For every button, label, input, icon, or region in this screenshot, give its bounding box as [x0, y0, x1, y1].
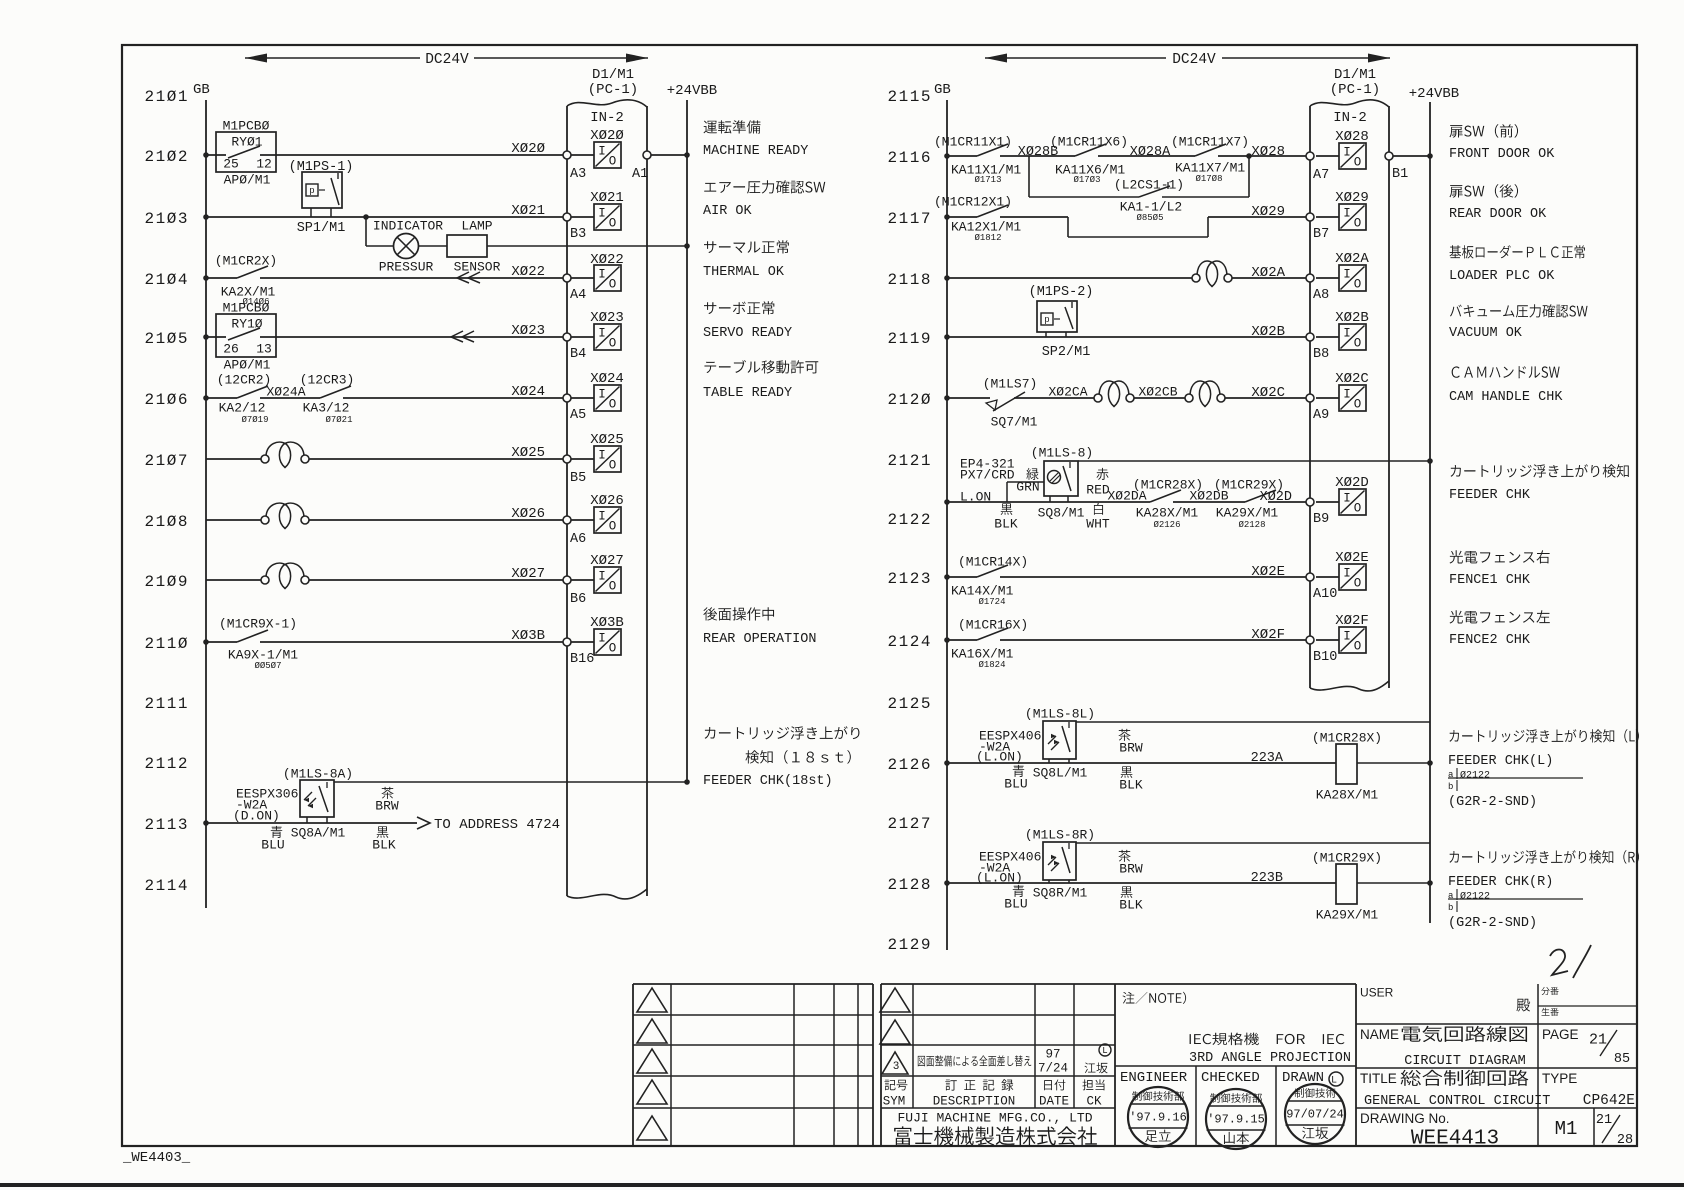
svg-text:I: I: [1343, 146, 1351, 160]
svg-text:XØ26: XØ26: [590, 493, 624, 509]
svg-text:Ø2128: Ø2128: [1238, 520, 1265, 530]
GRN wire: [1006, 482, 1008, 502]
wire 2102 to module: [260, 154, 567, 156]
junction dot rail X02D: [944, 499, 950, 505]
sheet cell M1: [1593, 1108, 1595, 1146]
svg-text:Ø1713: Ø1713: [974, 175, 1001, 185]
svg-text:B10: B10: [1313, 650, 1337, 665]
svg-text:I: I: [1343, 327, 1351, 341]
wire rung XØ27: [206, 579, 261, 581]
svg-text:A9: A9: [1313, 408, 1329, 423]
svg-text:2124: 2124: [888, 633, 931, 651]
svg-text:2128: 2128: [888, 876, 931, 894]
M1LS-8A stubs: [306, 817, 308, 823]
junction dot rail 2116: [944, 153, 950, 159]
svg-text:TYPE: TYPE: [1542, 1071, 1577, 1086]
PLC I/O module IN-2 (right half): [1309, 106, 1311, 688]
junction dot +24VBB M1CR28X: [1427, 760, 1433, 766]
svg-text:SERVO READY: SERVO READY: [703, 326, 792, 341]
junction dot +24VBB 2116: [1427, 153, 1433, 159]
revision triangles left: [637, 988, 667, 1012]
note box: [1115, 983, 1356, 985]
svg-text:13: 13: [256, 342, 272, 357]
I/O input XØ26: [571, 519, 594, 521]
wire 2105 rail to relay box: [206, 336, 226, 338]
terminal circle B3: [563, 213, 571, 221]
svg-text:223A: 223A: [1251, 751, 1284, 766]
svg-text:(M1CR11X6): (M1CR11X6): [1050, 135, 1128, 150]
svg-text:FEEDER CHK(18st): FEEDER CHK(18st): [703, 774, 833, 789]
I/O input X023: [571, 336, 594, 338]
svg-text:BRW: BRW: [375, 799, 399, 814]
svg-text:XØ22: XØ22: [590, 252, 624, 268]
svg-text:DC24V: DC24V: [1172, 52, 1216, 68]
svg-text:(M1LS-8R): (M1LS-8R): [1025, 828, 1095, 843]
svg-text:_WE4403_: _WE4403_: [122, 1150, 191, 1166]
chevron arrow 2104: [457, 272, 469, 283]
label 分番: [1541, 987, 1558, 995]
stamp engineer 足立: [1128, 1087, 1188, 1147]
svg-text:PRESSUR: PRESSUR: [379, 260, 434, 275]
svg-text:Ø17Ø3: Ø17Ø3: [1073, 175, 1100, 185]
I/O input X03B: [571, 641, 594, 643]
svg-text:2118: 2118: [888, 271, 931, 289]
terminal circle B4: [563, 333, 571, 341]
I/O input X02C: [1316, 397, 1339, 399]
svg-text:2117: 2117: [888, 210, 931, 228]
maker 富士機械製造株式会社: [894, 1126, 1097, 1145]
label GRN green: [1026, 468, 1038, 480]
svg-text:Ø7Ø21: Ø7Ø21: [325, 415, 352, 425]
svg-text:I: I: [598, 327, 606, 341]
svg-text:O: O: [1354, 217, 1362, 231]
svg-text:2113: 2113: [145, 816, 188, 834]
terminal circle B8: [1306, 333, 1314, 341]
terminal circle A4: [563, 274, 571, 282]
svg-text:O: O: [609, 155, 617, 169]
svg-text:XØ2C: XØ2C: [1335, 371, 1369, 387]
svg-text:2116: 2116: [888, 149, 931, 167]
annotation 扉SW(前): [1449, 124, 1518, 138]
svg-text:KA28X/M1: KA28X/M1: [1136, 506, 1199, 521]
label BRW brown: [1119, 850, 1131, 862]
terminal circle A1: [643, 151, 651, 159]
svg-text:SQ8A/M1: SQ8A/M1: [291, 826, 346, 841]
svg-text:LOADER PLC OK: LOADER PLC OK: [1449, 269, 1555, 284]
svg-text:APØ/M1: APØ/M1: [224, 358, 271, 373]
label WHT white: [1094, 503, 1103, 515]
svg-text:KA29X/M1: KA29X/M1: [1216, 506, 1279, 521]
wire 2119: [947, 336, 1310, 338]
+24VBB rail (left half): [686, 100, 688, 782]
junction dot +24VBB M1CR29X: [1427, 880, 1433, 886]
junction dot +24VBB sensor: [684, 779, 690, 785]
svg-text:FUJI MACHINE MFG.CO., LTD: FUJI MACHINE MFG.CO., LTD: [897, 1111, 1092, 1126]
terminal circle B10: [1306, 636, 1314, 644]
svg-text:BLU: BLU: [1004, 777, 1027, 792]
terminal circle B9: [1306, 498, 1314, 506]
connector pair symbol XØ25: [266, 442, 286, 455]
svg-text:XØ23: XØ23: [590, 310, 624, 326]
svg-text:XØ2E: XØ2E: [1335, 550, 1369, 566]
label BLK black: [1001, 503, 1013, 514]
wire 2117 jog: [1000, 216, 1068, 218]
svg-text:BRW: BRW: [1119, 862, 1143, 877]
svg-text:TITLE: TITLE: [1360, 1071, 1397, 1086]
svg-text:SENSOR: SENSOR: [454, 260, 501, 275]
svg-text:XØ2C: XØ2C: [1251, 385, 1285, 401]
contact KA1-1/L2 blade: [1139, 186, 1170, 197]
indicator lamp symbol: [394, 234, 419, 259]
svg-text:REAR DOOR OK: REAR DOOR OK: [1449, 207, 1547, 222]
svg-text:Ø1724: Ø1724: [978, 597, 1005, 607]
svg-text:DC24V: DC24V: [425, 52, 469, 68]
I/O input X020: [571, 154, 594, 156]
annotation 運転準備: [704, 120, 761, 133]
svg-text:Ø1812: Ø1812: [974, 233, 1001, 243]
left bus rail GB (left half): [205, 100, 207, 908]
svg-text:I: I: [598, 570, 606, 584]
svg-text:O: O: [609, 459, 617, 473]
svg-text:B7: B7: [1313, 227, 1329, 242]
svg-text:A7: A7: [1313, 168, 1329, 183]
svg-text:SQ8R/M1: SQ8R/M1: [1033, 886, 1088, 901]
junction dot bypass right: [1246, 153, 1252, 159]
terminal circle B5: [563, 455, 571, 463]
junction dot rail 2120: [944, 395, 950, 401]
svg-text:2122: 2122: [888, 511, 931, 529]
svg-text:21Ø9: 21Ø9: [145, 573, 188, 591]
I/O input X02E: [1316, 576, 1339, 578]
annotation サーボ正常: [704, 301, 774, 314]
junction dot rail 2123: [944, 574, 950, 580]
svg-text:XØ21: XØ21: [511, 203, 545, 219]
annotation 検知(18st): [745, 750, 850, 764]
label BLU blue: [1013, 885, 1024, 897]
svg-text:DESCRIPTION: DESCRIPTION: [933, 1095, 1016, 1109]
svg-text:XØ2D: XØ2D: [1335, 475, 1369, 491]
svg-text:I: I: [598, 145, 606, 159]
svg-text:BLU: BLU: [1004, 897, 1027, 912]
svg-text:NAME: NAME: [1360, 1027, 1399, 1042]
svg-text:ØØ5Ø7: ØØ5Ø7: [254, 661, 281, 671]
revision triangle 3: [882, 1052, 908, 1074]
label BLK black: [377, 826, 389, 837]
svg-text:85: 85: [1614, 1052, 1630, 1067]
annotation 光電フェンス左: [1450, 610, 1550, 623]
svg-text:PAGE: PAGE: [1542, 1027, 1579, 1042]
svg-text:B4: B4: [570, 347, 586, 362]
svg-text:12: 12: [256, 157, 272, 172]
svg-text:O: O: [1354, 502, 1362, 516]
I/O input XØ27: [571, 579, 594, 581]
svg-text:DRAWING No.: DRAWING No.: [1360, 1111, 1450, 1126]
connector pair symbol X02CB-2: [1190, 381, 1206, 394]
revision table middle: [880, 984, 882, 1146]
I/O input X022: [571, 277, 594, 279]
svg-text:(M1CR14X): (M1CR14X): [958, 555, 1028, 570]
annotation 扉SW(後): [1449, 184, 1518, 198]
svg-text:BRW: BRW: [1119, 741, 1143, 756]
svg-text:(M1LS7): (M1LS7): [983, 377, 1038, 392]
svg-text:D1/M1: D1/M1: [1334, 67, 1376, 83]
svg-text:XØ23: XØ23: [511, 323, 545, 339]
connector pair symbol XØ27: [266, 563, 286, 576]
svg-text:XØ28A: XØ28A: [1130, 145, 1171, 160]
M1LS-8R blade: [1062, 847, 1070, 873]
svg-text:ENGINEER: ENGINEER: [1120, 1070, 1188, 1086]
svg-text:XØ29: XØ29: [1335, 190, 1369, 206]
stamp drawn 江坂: [1285, 1084, 1345, 1144]
svg-text:Ø2122: Ø2122: [1460, 891, 1490, 903]
svg-text:28: 28: [1617, 1133, 1633, 1148]
svg-text:2126: 2126: [888, 756, 931, 774]
svg-text:LAMP: LAMP: [461, 219, 492, 234]
+24VBB rail (right half): [1429, 102, 1431, 923]
label BLK black: [1121, 886, 1133, 897]
svg-text:A6: A6: [570, 532, 586, 547]
label BLU blue: [271, 826, 282, 838]
svg-text:(12CR2): (12CR2): [217, 373, 272, 388]
wire 2103: [206, 216, 567, 218]
svg-text:SQ7/M1: SQ7/M1: [991, 415, 1038, 430]
junction dot rail 223B: [944, 880, 950, 886]
junction dot rail 2118: [944, 275, 950, 281]
header 記号 SYM: [884, 1080, 907, 1091]
wire rung XØ25: [206, 458, 261, 460]
svg-text:97/07/24: 97/07/24: [1286, 1107, 1344, 1121]
svg-text:(PC-1): (PC-1): [588, 82, 638, 98]
svg-text:2129: 2129: [888, 936, 931, 954]
revision CK circled L: [1099, 1044, 1111, 1056]
svg-text:XØ2D: XØ2D: [1260, 490, 1292, 505]
svg-text:O: O: [609, 278, 617, 292]
svg-text:XØ3B: XØ3B: [511, 628, 545, 644]
wire 223A: [947, 762, 1336, 764]
svg-text:CK: CK: [1086, 1095, 1102, 1109]
wire 2102 to +24VBB: [651, 154, 687, 156]
svg-text:XØ3B: XØ3B: [590, 615, 624, 631]
svg-text:DATE: DATE: [1039, 1095, 1069, 1109]
wire 2102 rail to relay box: [206, 154, 226, 156]
svg-text:XØ2B: XØ2B: [1251, 324, 1285, 340]
svg-text:GB: GB: [193, 82, 210, 98]
svg-text:I: I: [598, 510, 606, 524]
svg-text:+24VBB: +24VBB: [667, 83, 717, 99]
junction dot rail 2119: [944, 334, 950, 340]
svg-text:XØ2E: XØ2E: [1251, 564, 1285, 580]
wire X02D: [947, 501, 1150, 503]
junction dot rail 2102: [203, 152, 209, 158]
I/O input X024: [571, 397, 594, 399]
svg-text:b: b: [1448, 903, 1453, 913]
svg-text:XØ2A: XØ2A: [1335, 251, 1369, 267]
M1LS-8 blade: [1063, 466, 1071, 491]
svg-text:O: O: [609, 398, 617, 412]
annotation カートリッジ浮き上がり検知(R): [1449, 850, 1639, 864]
M1LS-8A top wire to +24VBB: [334, 781, 687, 783]
bypass branch L2CS1-1: [1028, 156, 1030, 197]
terminal circle A5: [563, 394, 571, 402]
terminal circle B16: [563, 638, 571, 646]
svg-text:CP642E: CP642E: [1583, 1093, 1635, 1109]
annotation エアー圧力確認SW: [704, 180, 825, 193]
svg-text:XØ25: XØ25: [511, 445, 545, 461]
svg-text:B9: B9: [1313, 512, 1329, 527]
svg-text:'97.9.16: '97.9.16: [1129, 1110, 1187, 1124]
svg-text:I: I: [598, 449, 606, 463]
junction dot rail 2105: [203, 334, 209, 340]
label RED red: [1096, 468, 1108, 480]
svg-text:TABLE READY: TABLE READY: [703, 386, 792, 401]
approval row: [1195, 1066, 1197, 1146]
svg-text:a: a: [1448, 770, 1454, 780]
terminal circle A10: [1306, 573, 1314, 581]
svg-text:I: I: [1343, 388, 1351, 402]
svg-text:A8: A8: [1313, 288, 1329, 303]
junction dot +24VBB M1LS-8: [1427, 458, 1433, 464]
svg-text:O: O: [1354, 398, 1362, 412]
svg-text:XØ2B: XØ2B: [1335, 310, 1369, 326]
M1LS-8 stubs: [1049, 496, 1051, 502]
svg-text:XØ2Ø: XØ2Ø: [590, 128, 624, 144]
svg-text:KA2/12: KA2/12: [219, 401, 266, 416]
svg-text:XØ24: XØ24: [511, 384, 545, 400]
handwritten page mark 21: [1550, 950, 1568, 976]
svg-text:O: O: [1354, 337, 1362, 351]
wire M1CR28X to +24VBB: [1357, 762, 1430, 764]
svg-text:CHECKED: CHECKED: [1201, 1070, 1260, 1086]
M1PS-2 stubs: [1045, 332, 1047, 337]
svg-text:CAM HANDLE CHK: CAM HANDLE CHK: [1449, 390, 1563, 405]
svg-text:I: I: [1343, 492, 1351, 506]
I/O input X02D: [1316, 501, 1339, 503]
svg-text:21Ø6: 21Ø6: [145, 391, 188, 409]
revision triangle mid row2: [880, 1020, 910, 1044]
svg-text:XØ25: XØ25: [590, 432, 624, 448]
svg-text:2123: 2123: [888, 570, 931, 588]
label BRW brown: [382, 787, 394, 799]
svg-text:b: b: [1448, 782, 1453, 792]
to-address arrowhead: [417, 817, 430, 829]
M1LS-8L blade: [1062, 726, 1070, 752]
annotation カートリッジ浮き上がり検知(L): [1449, 729, 1639, 743]
junction dot rail 2110: [203, 639, 209, 645]
svg-text:3: 3: [893, 1061, 900, 1073]
junction dot rail 2113: [203, 820, 209, 826]
svg-text:XØ21: XØ21: [590, 190, 624, 206]
name 電気回路線図: [1402, 1026, 1527, 1042]
svg-text:O: O: [1354, 577, 1362, 591]
svg-text:B1: B1: [1392, 167, 1408, 182]
svg-text:GENERAL CONTROL CIRCUIT: GENERAL CONTROL CIRCUIT: [1364, 1094, 1550, 1109]
svg-text:26: 26: [223, 342, 239, 357]
svg-text:I: I: [598, 268, 606, 282]
svg-text:FEEDER CHK(L): FEEDER CHK(L): [1448, 754, 1553, 769]
svg-text:BLK: BLK: [1119, 898, 1143, 913]
svg-text:2112: 2112: [145, 755, 188, 773]
connector pair symbol X02CB-1: [1099, 381, 1115, 394]
terminal circle B7: [1306, 213, 1314, 221]
svg-text:(G2R-2-SND): (G2R-2-SND): [1448, 795, 1537, 810]
header 日付 DATE: [1044, 1079, 1065, 1090]
svg-text:THERMAL OK: THERMAL OK: [703, 265, 785, 280]
svg-text:A3: A3: [570, 167, 586, 182]
terminal circle A7: [1306, 152, 1314, 160]
svg-text:USER: USER: [1360, 985, 1394, 999]
drawn circled L: [1329, 1072, 1343, 1086]
svg-text:O: O: [1354, 278, 1362, 292]
I/O input X028: [1316, 155, 1339, 157]
label BLK black: [1121, 766, 1133, 777]
svg-text:(M1CR16X): (M1CR16X): [958, 618, 1028, 633]
chevron arrow 2105: [451, 331, 463, 342]
relay contact RY01 box (M1PCB0 AP0/M1): [216, 132, 276, 172]
svg-text:Ø85Ø5: Ø85Ø5: [1136, 213, 1163, 223]
annotation バキューム圧力確認SW: [1450, 304, 1588, 317]
PLC I/O module IN-2 (left half): [566, 106, 568, 896]
svg-text:I: I: [1343, 567, 1351, 581]
svg-text:2111: 2111: [145, 695, 188, 713]
svg-text:(D.ON): (D.ON): [233, 809, 280, 824]
terminal circle A6: [563, 516, 571, 524]
svg-text:2127: 2127: [888, 815, 931, 833]
svg-text:A5: A5: [570, 408, 586, 423]
svg-text:BLU: BLU: [261, 838, 284, 853]
svg-text:211Ø: 211Ø: [145, 635, 188, 653]
svg-text:21Ø7: 21Ø7: [145, 452, 188, 470]
svg-text:A10: A10: [1313, 587, 1337, 602]
svg-text:XØ28: XØ28: [1335, 129, 1369, 145]
wire: [1134, 397, 1185, 399]
scan artifact bottom line: [0, 1183, 1684, 1187]
svg-text:XØ24: XØ24: [590, 371, 624, 387]
svg-text:FENCE1 CHK: FENCE1 CHK: [1449, 573, 1531, 588]
annotation カートリッジ浮き上がり: [705, 726, 860, 739]
svg-text:TO ADDRESS 4724: TO ADDRESS 4724: [434, 817, 560, 833]
svg-text:(L2CS1-1): (L2CS1-1): [1114, 178, 1184, 193]
svg-text:O: O: [609, 337, 617, 351]
svg-text:XØ2F: XØ2F: [1335, 613, 1369, 629]
annotation サーマル正常: [704, 240, 789, 253]
svg-text:p: p: [309, 186, 314, 196]
I/O input X02A: [1316, 277, 1339, 279]
svg-text:BLK: BLK: [372, 838, 396, 853]
svg-text:I: I: [598, 207, 606, 221]
I/O input XØ25: [571, 458, 594, 460]
label 殿: [1516, 999, 1530, 1012]
svg-text:I: I: [1343, 268, 1351, 282]
M1LS-8R stubs: [1048, 880, 1050, 883]
I/O input X029: [1316, 216, 1339, 218]
svg-text:O: O: [609, 642, 617, 656]
svg-text:7/24: 7/24: [1038, 1062, 1068, 1076]
junction dot rail 2103: [203, 214, 209, 220]
svg-text:Ø2126: Ø2126: [1153, 520, 1180, 530]
indicator branch wire: [365, 217, 367, 246]
svg-text:KA28X/M1: KA28X/M1: [1316, 788, 1379, 803]
M1LS-8R top wire to +24VBB: [1076, 842, 1430, 844]
terminal circle A3: [563, 151, 571, 159]
note label 注/NOTE): [1123, 992, 1187, 1004]
svg-text:FEEDER CHK(R): FEEDER CHK(R): [1448, 875, 1553, 890]
M1LS-8A blade: [319, 786, 328, 812]
revision triangle mid row1: [880, 988, 910, 1012]
svg-text:SQ8/M1: SQ8/M1: [1038, 506, 1085, 521]
svg-text:PX7/CRD: PX7/CRD: [960, 468, 1015, 483]
I/O input X02B: [1316, 336, 1339, 338]
terminal circle B1: [1385, 152, 1393, 160]
